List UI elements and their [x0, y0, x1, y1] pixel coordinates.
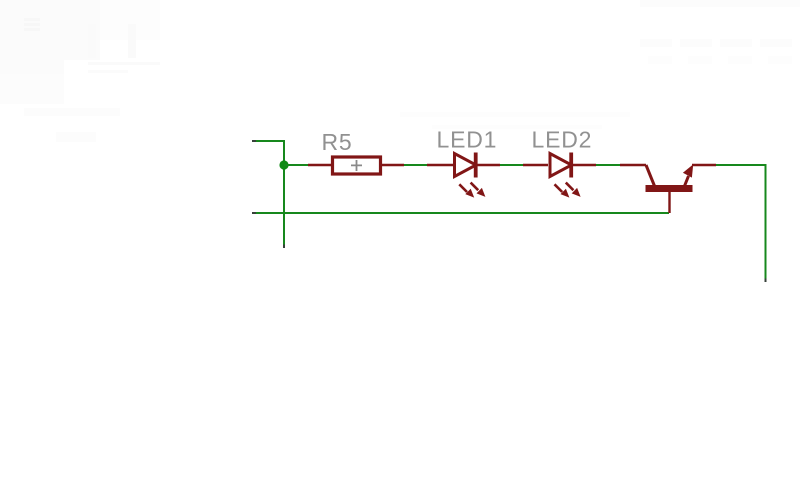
light arrow 2 of LED1	[471, 183, 479, 191]
svg-text:LED2: LED2	[532, 127, 593, 153]
transistor Q1	[620, 164, 716, 213]
dark end tip of left vertical wire	[283, 245, 285, 249]
wire: emitter to right edge net	[716, 164, 766, 166]
collector lead diagonal of Q1	[646, 165, 655, 186]
wire: bottom horizontal net (base return)	[252, 212, 669, 214]
wire: top-left horizontal net	[252, 140, 284, 142]
collector pin of Q1	[620, 164, 646, 166]
emitter arrowhead of Q1	[683, 164, 693, 177]
wire: left vertical net	[283, 140, 285, 248]
LED LED2	[523, 153, 596, 198]
dark end tip of bottom wire	[252, 212, 256, 214]
anode pin of LED2	[523, 164, 548, 166]
faint window ghost artifact (top-right)	[400, 0, 800, 129]
wire: right vertical net	[765, 164, 767, 282]
pin 1 of R5	[308, 164, 331, 166]
svg-text:R5: R5	[322, 129, 353, 155]
wire: LED2 to transistor net	[595, 164, 620, 166]
cathode bar of LED1	[474, 153, 478, 178]
cathode pin of LED1	[477, 164, 500, 166]
base bar of Q1	[646, 185, 693, 192]
wire: LED1 to LED2 net	[499, 164, 524, 166]
LED LED1	[427, 153, 500, 198]
resistor R5 body	[333, 157, 381, 174]
light arrow 2 of LED2	[566, 183, 574, 191]
anode triangle of LED2	[550, 154, 572, 177]
cathode bar of LED2	[569, 153, 573, 178]
junction dot	[279, 160, 288, 169]
wire: resistor to LED1 net	[403, 164, 428, 166]
pin 2 of R5	[382, 164, 404, 166]
value placeholder + of R5	[351, 160, 362, 171]
light arrow 1 of LED2	[555, 184, 563, 192]
light arrow 1 of LED1	[459, 184, 467, 192]
anode triangle of LED1	[455, 154, 477, 177]
svg-text:LED1: LED1	[437, 127, 498, 153]
cathode pin of LED2	[573, 164, 597, 166]
wire: junction to resistor pin	[284, 164, 309, 166]
anode pin of LED1	[427, 164, 453, 166]
emitter lead diagonal of Q1	[685, 176, 689, 186]
faint window ghost artifact (top-left)	[0, 0, 160, 142]
emitter pin of Q1	[692, 164, 716, 166]
dark end tip of top-left wire	[252, 140, 256, 142]
base pin stub of Q1	[668, 192, 670, 213]
dark end tip of right vertical wire	[765, 279, 767, 283]
resistor R5	[308, 157, 404, 174]
